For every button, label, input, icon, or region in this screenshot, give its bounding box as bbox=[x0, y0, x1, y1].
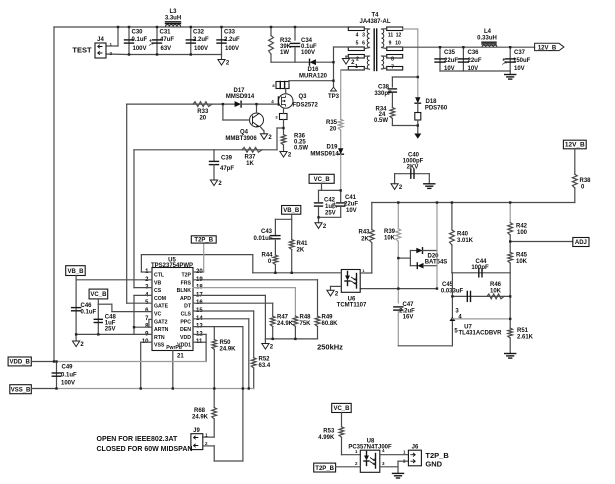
svg-text:R37: R37 bbox=[244, 155, 256, 161]
svg-text:100V: 100V bbox=[301, 50, 315, 56]
svg-text:21: 21 bbox=[177, 354, 184, 360]
svg-text:0.1uF: 0.1uF bbox=[81, 310, 97, 316]
svg-text:VC_B: VC_B bbox=[314, 177, 331, 183]
svg-text:MMSD914: MMSD914 bbox=[226, 94, 255, 100]
svg-text:RTN: RTN bbox=[154, 335, 165, 341]
svg-text:1: 1 bbox=[355, 64, 358, 70]
svg-text:10V: 10V bbox=[468, 66, 479, 72]
svg-text:10V: 10V bbox=[514, 66, 525, 72]
svg-text:2.2uF: 2.2uF bbox=[224, 37, 240, 43]
svg-text:0.5W: 0.5W bbox=[294, 146, 308, 152]
svg-text:10: 10 bbox=[395, 41, 401, 47]
svg-text:47pF: 47pF bbox=[220, 166, 234, 172]
svg-text:100: 100 bbox=[517, 230, 528, 236]
svg-text:12V_B: 12V_B bbox=[538, 45, 557, 51]
svg-text:R47: R47 bbox=[277, 315, 289, 321]
svg-text:T4: T4 bbox=[371, 13, 379, 19]
svg-text:C30: C30 bbox=[132, 30, 144, 36]
svg-text:12: 12 bbox=[396, 33, 402, 39]
svg-text:TP3: TP3 bbox=[328, 94, 340, 100]
svg-text:22uF: 22uF bbox=[444, 58, 458, 64]
svg-text:0.1uF: 0.1uF bbox=[132, 37, 148, 43]
svg-text:OPEN FOR IEEE802.3AT: OPEN FOR IEEE802.3AT bbox=[97, 436, 179, 443]
svg-text:C38: C38 bbox=[378, 85, 390, 91]
svg-text:C41: C41 bbox=[345, 195, 357, 201]
svg-text:330pF: 330pF bbox=[374, 91, 392, 97]
svg-text:CTL: CTL bbox=[154, 273, 165, 279]
svg-text:16V: 16V bbox=[403, 315, 414, 321]
svg-text:100V: 100V bbox=[61, 381, 75, 387]
svg-text:63.4: 63.4 bbox=[259, 363, 271, 369]
svg-text:25V: 25V bbox=[325, 211, 336, 217]
svg-text:R41: R41 bbox=[297, 241, 309, 247]
svg-text:C43: C43 bbox=[261, 229, 273, 235]
svg-text:C39: C39 bbox=[221, 156, 233, 162]
svg-text:C33: C33 bbox=[224, 30, 236, 36]
svg-text:R49: R49 bbox=[322, 315, 334, 321]
svg-text:0.01uF: 0.01uF bbox=[253, 236, 272, 242]
svg-text:10K: 10K bbox=[384, 236, 396, 242]
svg-text:PPC: PPC bbox=[180, 319, 191, 325]
svg-text:1W: 1W bbox=[280, 50, 289, 56]
svg-text:C32: C32 bbox=[193, 30, 205, 36]
svg-text:100V: 100V bbox=[225, 46, 239, 52]
svg-text:25V: 25V bbox=[105, 327, 116, 333]
svg-text:VC_B: VC_B bbox=[90, 292, 107, 298]
svg-text:FDS2572: FDS2572 bbox=[293, 103, 319, 109]
svg-text:Q4: Q4 bbox=[240, 130, 249, 136]
svg-text:C36: C36 bbox=[468, 50, 480, 56]
svg-text:D19: D19 bbox=[326, 145, 338, 151]
svg-text:BAT54S: BAT54S bbox=[425, 260, 448, 266]
svg-text:4: 4 bbox=[356, 33, 359, 39]
svg-text:TEST: TEST bbox=[72, 46, 92, 55]
svg-text:3: 3 bbox=[362, 33, 365, 39]
svg-text:BLNK: BLNK bbox=[177, 288, 192, 294]
svg-text:R46: R46 bbox=[490, 282, 502, 288]
svg-text:APD: APD bbox=[180, 296, 191, 302]
svg-text:1uF: 1uF bbox=[325, 204, 336, 210]
svg-text:C31: C31 bbox=[160, 30, 172, 36]
svg-text:MURA120: MURA120 bbox=[299, 74, 328, 80]
svg-text:VC: VC bbox=[154, 312, 161, 318]
svg-text:63V: 63V bbox=[161, 46, 172, 52]
svg-text:8: 8 bbox=[391, 57, 394, 63]
svg-text:J9: J9 bbox=[193, 428, 200, 434]
svg-text:MMSD914: MMSD914 bbox=[310, 152, 339, 158]
svg-text:JA4387-AL: JA4387-AL bbox=[359, 19, 390, 25]
svg-text:R53: R53 bbox=[323, 429, 335, 435]
svg-text:R39: R39 bbox=[384, 229, 396, 235]
svg-text:0.5W: 0.5W bbox=[374, 118, 388, 124]
svg-text:TCMT1107: TCMT1107 bbox=[337, 303, 367, 309]
svg-text:10V: 10V bbox=[346, 208, 357, 214]
svg-text:2KV: 2KV bbox=[407, 165, 419, 171]
svg-text:9: 9 bbox=[389, 41, 392, 47]
svg-text:R45: R45 bbox=[516, 253, 528, 259]
svg-text:VB: VB bbox=[154, 280, 161, 286]
svg-text:2K: 2K bbox=[361, 237, 369, 243]
svg-text:T2P_B: T2P_B bbox=[315, 466, 334, 472]
svg-text:PwrPd: PwrPd bbox=[166, 345, 182, 351]
svg-text:10K: 10K bbox=[516, 259, 528, 265]
svg-text:4.99K: 4.99K bbox=[318, 435, 335, 441]
svg-text:20: 20 bbox=[330, 127, 337, 133]
svg-text:R68: R68 bbox=[194, 408, 206, 414]
svg-text:J6: J6 bbox=[412, 445, 419, 451]
svg-text:D16: D16 bbox=[307, 67, 319, 73]
svg-text:2.2uF: 2.2uF bbox=[193, 37, 209, 43]
svg-text:VB_B: VB_B bbox=[67, 269, 84, 275]
svg-text:60.8K: 60.8K bbox=[322, 321, 339, 327]
svg-text:24.9K: 24.9K bbox=[277, 321, 294, 327]
svg-text:22uF: 22uF bbox=[344, 202, 358, 208]
svg-text:VC_B: VC_B bbox=[333, 406, 350, 412]
svg-text:1K: 1K bbox=[246, 161, 254, 167]
svg-text:150uF: 150uF bbox=[513, 58, 531, 64]
svg-text:20: 20 bbox=[199, 116, 206, 122]
svg-text:DT: DT bbox=[184, 304, 192, 310]
svg-text:47uF: 47uF bbox=[160, 37, 174, 43]
svg-text:C42: C42 bbox=[324, 198, 336, 204]
svg-text:100pF: 100pF bbox=[471, 265, 489, 271]
svg-text:250kHz: 250kHz bbox=[317, 343, 343, 352]
svg-text:R42: R42 bbox=[516, 224, 528, 230]
svg-text:R38: R38 bbox=[580, 178, 592, 184]
svg-text:VB_B: VB_B bbox=[283, 208, 300, 214]
svg-text:GATE: GATE bbox=[154, 304, 169, 310]
svg-text:GND: GND bbox=[425, 460, 442, 469]
svg-text:R44: R44 bbox=[261, 253, 273, 259]
svg-text:DEN: DEN bbox=[180, 327, 191, 333]
svg-text:Q3: Q3 bbox=[299, 94, 308, 100]
svg-text:R33: R33 bbox=[197, 109, 209, 115]
svg-text:T2P_B: T2P_B bbox=[194, 238, 213, 244]
svg-text:R43: R43 bbox=[358, 230, 370, 236]
svg-text:6: 6 bbox=[362, 41, 365, 47]
svg-text:R40: R40 bbox=[457, 232, 469, 238]
svg-text:ADJ: ADJ bbox=[575, 240, 587, 246]
svg-text:R51: R51 bbox=[517, 328, 529, 334]
svg-text:L3: L3 bbox=[169, 9, 177, 15]
svg-text:L4: L4 bbox=[484, 29, 492, 35]
svg-text:2K: 2K bbox=[297, 248, 305, 254]
svg-text:24.9K: 24.9K bbox=[192, 415, 209, 421]
svg-text:100V: 100V bbox=[194, 46, 208, 52]
svg-text:VDD_B: VDD_B bbox=[10, 360, 31, 366]
svg-text:R50: R50 bbox=[220, 340, 232, 346]
svg-text:3.3uH: 3.3uH bbox=[165, 16, 181, 22]
svg-text:75K: 75K bbox=[300, 321, 312, 327]
svg-text:7: 7 bbox=[391, 65, 394, 71]
svg-text:PDS760: PDS760 bbox=[425, 106, 448, 112]
svg-text:11: 11 bbox=[388, 33, 394, 39]
svg-text:D18: D18 bbox=[425, 99, 437, 105]
svg-text:VDD: VDD bbox=[180, 335, 191, 341]
svg-text:10V: 10V bbox=[444, 66, 455, 72]
svg-text:0.33uH: 0.33uH bbox=[477, 36, 497, 42]
svg-text:R35: R35 bbox=[326, 120, 338, 126]
svg-text:COM: COM bbox=[154, 296, 166, 302]
svg-text:12V_B: 12V_B bbox=[565, 142, 585, 149]
svg-text:MMBT3906: MMBT3906 bbox=[225, 136, 257, 142]
svg-text:R48: R48 bbox=[300, 315, 312, 321]
svg-text:CS: CS bbox=[154, 288, 162, 294]
svg-text:C35: C35 bbox=[444, 50, 456, 56]
svg-text:ARTN: ARTN bbox=[154, 327, 169, 333]
svg-text:24.9K: 24.9K bbox=[220, 347, 237, 353]
svg-text:T2P: T2P bbox=[181, 273, 191, 279]
svg-text:0.1uF: 0.1uF bbox=[61, 373, 77, 379]
svg-text:C49: C49 bbox=[62, 365, 74, 371]
svg-text:2: 2 bbox=[356, 57, 359, 63]
svg-text:C46: C46 bbox=[81, 303, 93, 309]
svg-text:CLOSED FOR 60W MIDSPAN: CLOSED FOR 60W MIDSPAN bbox=[97, 446, 193, 453]
svg-text:100V: 100V bbox=[133, 46, 147, 52]
svg-text:GAT2: GAT2 bbox=[154, 319, 168, 325]
svg-text:TL431ACDBVR: TL431ACDBVR bbox=[458, 331, 502, 337]
svg-text:FRS: FRS bbox=[181, 280, 192, 286]
svg-text:R52: R52 bbox=[259, 357, 271, 363]
svg-text:C47: C47 bbox=[402, 302, 414, 308]
svg-text:5: 5 bbox=[356, 41, 359, 47]
svg-text:CLS: CLS bbox=[181, 312, 192, 318]
svg-text:10K: 10K bbox=[490, 289, 502, 295]
svg-text:VSS_B: VSS_B bbox=[11, 387, 31, 393]
svg-text:C37: C37 bbox=[514, 50, 526, 56]
svg-text:TPS23754PWP: TPS23754PWP bbox=[151, 263, 193, 269]
svg-text:VSS: VSS bbox=[154, 343, 165, 349]
svg-text:J4: J4 bbox=[97, 37, 104, 43]
svg-text:3.01K: 3.01K bbox=[457, 238, 474, 244]
svg-text:22uF: 22uF bbox=[468, 58, 482, 64]
svg-text:2.61K: 2.61K bbox=[517, 335, 534, 341]
